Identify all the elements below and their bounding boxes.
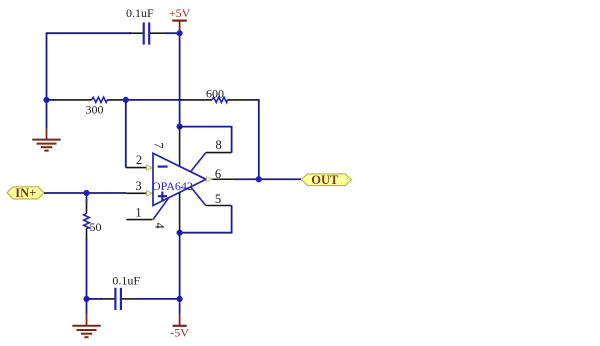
- port IN+: [7, 186, 44, 200]
- wire pin2 drop: [125, 100, 127, 168]
- wire pin6 to OUT: [234, 178, 301, 180]
- wire IN+ to pin3: [44, 192, 126, 194]
- svg-text:+5V: +5V: [169, 6, 191, 20]
- opamp U1 pin 4: [179, 192, 181, 232]
- opamp U1 pin 1: [126, 219, 152, 221]
- opamp U1 body: [153, 153, 206, 205]
- wire pin8 loop: [180, 127, 232, 153]
- resistor R3: [84, 203, 90, 240]
- svg-text:1: 1: [135, 206, 141, 220]
- power +5V: [169, 6, 191, 33]
- svg-text:4: 4: [153, 222, 167, 229]
- wire left to R1: [47, 99, 55, 101]
- wire R2 to output node: [251, 100, 259, 179]
- wire ground GND1 stem: [46, 100, 48, 129]
- junction node bottom right: [177, 296, 183, 302]
- wire ground GND2 stem: [86, 299, 88, 313]
- svg-text:3: 3: [135, 179, 141, 193]
- opamp U1 pin5 link: [191, 187, 206, 206]
- svg-text:-5V: -5V: [170, 326, 189, 340]
- svg-text:IN+: IN+: [15, 186, 36, 200]
- junction node pin8 tap: [177, 124, 183, 130]
- resistor R2: [182, 97, 253, 102]
- svg-text:6: 6: [215, 167, 221, 181]
- svg-text:0.1uF: 0.1uF: [112, 273, 140, 287]
- opamp U1 pin 8: [206, 152, 232, 154]
- svg-text:OPA642: OPA642: [152, 179, 193, 193]
- opamp U1 pin 5: [206, 205, 232, 207]
- wire R1 to R2: [124, 99, 183, 101]
- svg-text:2: 2: [136, 153, 142, 167]
- junction node pin2 tap: [123, 97, 129, 103]
- opamp U1 pin 3: [126, 191, 152, 196]
- svg-text:50: 50: [90, 220, 102, 234]
- wire rail top: [179, 33, 181, 126]
- opamp U1 pin1 link: [153, 198, 168, 219]
- ground GND1: [32, 129, 60, 151]
- svg-text:7: 7: [152, 142, 166, 148]
- junction node left: [43, 97, 49, 103]
- wire R3 to bottom: [86, 239, 88, 299]
- capacitor C2: [101, 288, 137, 310]
- opamp U1 pin 7: [179, 127, 181, 167]
- junction node pin4: [177, 230, 183, 236]
- opamp U1 pin8 link: [191, 153, 206, 172]
- wire IN+ node to R3: [86, 193, 88, 204]
- wire rail to bottom: [179, 233, 181, 299]
- svg-text:600: 600: [206, 86, 224, 100]
- junction node 50 tap: [83, 190, 89, 196]
- wire C2 to -5V node: [137, 298, 180, 300]
- junction node +5V rail top: [177, 30, 183, 36]
- svg-text:300: 300: [86, 102, 104, 116]
- svg-text:8: 8: [215, 138, 221, 152]
- wire left vertical: [46, 32, 48, 100]
- ground GND2: [72, 313, 100, 337]
- svg-text:5: 5: [215, 192, 221, 206]
- wire top-left horizontal: [47, 32, 132, 34]
- resistor R1: [53, 97, 124, 102]
- opamp U1 plus: [158, 192, 167, 201]
- power -5V: [170, 299, 189, 340]
- svg-text:0.1uF: 0.1uF: [126, 6, 154, 20]
- wire bottom left: [87, 298, 103, 300]
- junction node output: [256, 176, 262, 182]
- wire C1 to +5V node: [166, 32, 180, 34]
- junction node bottom left: [83, 296, 89, 302]
- svg-text:OUT: OUT: [311, 173, 339, 187]
- opamp U1 minus: [158, 166, 168, 168]
- opamp U1 pin 2: [126, 165, 152, 170]
- opamp U1 pin 6: [207, 177, 234, 182]
- port OUT: [301, 173, 351, 187]
- wire pin5 loop: [180, 206, 232, 233]
- capacitor C1: [129, 22, 166, 44]
